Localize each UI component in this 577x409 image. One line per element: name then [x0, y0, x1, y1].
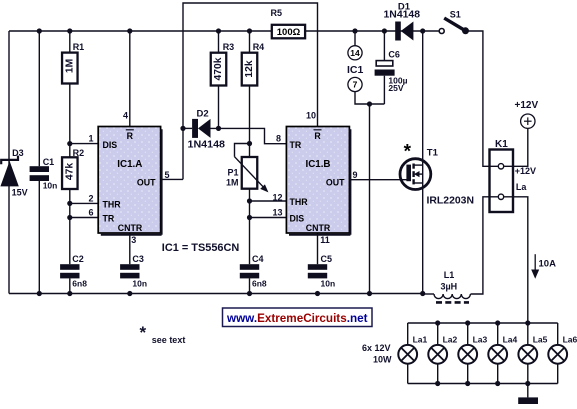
capacitor C1 10n [30, 157, 58, 190]
pin 4 [123, 111, 128, 121]
node junction D2 anode / R3 [216, 126, 221, 131]
node junction C6 top [382, 28, 387, 33]
pin 9 [353, 170, 358, 180]
wire K1 bottom to L1 [471, 197, 498, 294]
svg-text:12k: 12k [244, 60, 255, 77]
svg-text:C5: C5 [321, 254, 333, 264]
svg-text:OUT: OUT [326, 177, 345, 187]
resistor R4 12k [242, 42, 264, 86]
wire pin 5 OUT.A [161, 178, 183, 180]
node junction lamp bottom [495, 381, 500, 386]
wire bottom ground rail [9, 293, 423, 295]
op-amp U IC1.B timer half [286, 127, 350, 235]
svg-text:K1: K1 [495, 139, 508, 150]
wire lamps top bus [408, 322, 558, 324]
svg-text:*: * [140, 323, 147, 342]
diode D2 1N4148 [188, 109, 226, 151]
svg-text:IC1 = TS556CN: IC1 = TS556CN [162, 242, 240, 254]
svg-text:6n8: 6n8 [72, 279, 87, 289]
svg-text:S1: S1 [450, 10, 461, 20]
svg-text:R5: R5 [271, 8, 283, 18]
svg-text:C6: C6 [388, 49, 400, 59]
svg-text:R3: R3 [223, 42, 235, 52]
diode D3 zener 15V [0, 148, 27, 197]
svg-text:10A: 10A [539, 259, 557, 270]
wire IC1 ground drop [369, 104, 371, 294]
node junction R3 top [216, 28, 221, 33]
capacitor C5 10n [308, 254, 335, 289]
node junction pin13 [247, 215, 252, 220]
svg-text:1N4148: 1N4148 [384, 10, 421, 21]
node junction T1 source / L1 / ground rail [420, 291, 425, 296]
resistor R5 100R [271, 8, 306, 38]
label IC1 = TS556CN [162, 242, 240, 254]
svg-text:DIS: DIS [290, 213, 305, 223]
svg-text:10n: 10n [132, 279, 147, 289]
node junction lamp bottom [465, 381, 470, 386]
svg-text:+12V: +12V [515, 100, 539, 111]
svg-text:THR: THR [103, 200, 122, 210]
svg-text:C2: C2 [72, 254, 84, 264]
label +12V at K1 [515, 166, 536, 176]
switch S1 [439, 10, 469, 35]
pin 8 [276, 134, 281, 144]
wire R3 branch [218, 31, 220, 128]
lamp La4 [488, 323, 517, 384]
svg-text:CNTR: CNTR [306, 223, 331, 233]
power pin 14 [348, 46, 362, 60]
node junction lamp top [525, 320, 530, 325]
wire R1 R2 C2 column [69, 31, 71, 294]
label www.ExtremeCircuits.net [223, 308, 373, 327]
pin 11 label [320, 235, 330, 245]
pin 3 [131, 235, 136, 245]
svg-text:*: * [404, 142, 412, 163]
svg-text:R1: R1 [73, 42, 85, 52]
diode D1 1N4148 [384, 2, 421, 41]
capacitor C4 6n8 [240, 254, 267, 289]
label 6x 12V 10W [362, 343, 392, 365]
svg-text:D2: D2 [197, 109, 209, 120]
node junction gnd jog [367, 101, 372, 106]
power +12V supply [515, 100, 539, 129]
svg-text:10: 10 [306, 111, 316, 121]
svg-text:6x 12V: 6x 12V [362, 343, 391, 353]
wire left rail (D3 branch) [8, 31, 10, 294]
svg-text:La4: La4 [503, 335, 518, 345]
svg-text:La5: La5 [533, 335, 548, 345]
svg-text:IC1.A: IC1.A [117, 159, 142, 170]
wire S1 to K1 [466, 31, 498, 166]
pin 13 label [272, 208, 282, 218]
svg-text:OUT: OUT [137, 177, 156, 187]
wire pin 14 stub [354, 31, 356, 46]
svg-text:6: 6 [88, 208, 93, 218]
capacitor C6 100u 25V [375, 49, 408, 93]
wire pin 6 TR.A [70, 217, 98, 219]
node junction lamp bottom [525, 381, 530, 386]
node junction R4 top [247, 28, 252, 33]
svg-text:+12V: +12V [515, 166, 536, 176]
pin 5 [165, 170, 170, 180]
node junction lamp top [465, 320, 470, 325]
svg-text:TR: TR [103, 213, 115, 223]
svg-text:R: R [127, 131, 134, 141]
svg-text:D3: D3 [12, 148, 24, 158]
op-amp U IC1.A timer half [98, 127, 161, 235]
svg-text:R2: R2 [73, 148, 85, 158]
node junction D1 anode / T1 drain [420, 28, 425, 33]
svg-text:9: 9 [353, 170, 358, 180]
wire pin 7 to ground net [355, 92, 384, 104]
node junction pin14 top [352, 28, 357, 33]
svg-text:1M: 1M [226, 177, 239, 187]
svg-text:3: 3 [131, 235, 136, 245]
svg-text:25V: 25V [388, 83, 403, 93]
node junction C1 top [37, 28, 42, 33]
svg-text:10n: 10n [321, 279, 336, 289]
svg-text:CNTR: CNTR [118, 223, 143, 233]
svg-text:10W: 10W [373, 355, 392, 365]
node junction pin1/R1/R2 [67, 141, 72, 146]
svg-text:La: La [516, 182, 527, 192]
node junction C1 bottom [37, 291, 42, 296]
svg-text:5: 5 [165, 170, 170, 180]
wire pin 4 stub [129, 31, 131, 127]
wire K1 top to +12V [504, 128, 528, 166]
wire R4 branch [249, 31, 251, 144]
svg-text:10n: 10n [43, 180, 58, 190]
svg-text:IRL2203N: IRL2203N [427, 195, 475, 207]
resistor R1 1M [62, 42, 84, 84]
wire C6 branch [383, 31, 385, 104]
node junction OUT.A / D2 cathode [180, 126, 185, 131]
svg-text:C3: C3 [132, 254, 144, 264]
svg-text:L1: L1 [444, 270, 455, 280]
lamp La6 [548, 323, 577, 384]
wire P1 column [249, 144, 251, 294]
svg-text:6n8: 6n8 [252, 279, 267, 289]
node junction pin12 [247, 198, 252, 203]
svg-text:see text: see text [152, 335, 186, 345]
wire OUT.A to R of IC1.B (top loop) [183, 3, 318, 179]
svg-text:La3: La3 [473, 335, 488, 345]
power pin 7 [348, 77, 362, 91]
svg-text:1N4148: 1N4148 [188, 140, 226, 151]
lamp La2 [428, 323, 457, 384]
svg-text:1: 1 [88, 134, 93, 144]
svg-text:www.ExtremeCircuits.net: www.ExtremeCircuits.net [226, 312, 368, 325]
svg-text:2: 2 [88, 193, 93, 203]
node La net label [516, 182, 527, 192]
svg-text:THR: THR [290, 197, 309, 207]
capacitor C2 6n8 [60, 254, 87, 289]
svg-text:La2: La2 [443, 335, 458, 345]
wire pin 12 THR.B [250, 200, 287, 202]
svg-text:47k: 47k [64, 163, 75, 180]
svg-text:11: 11 [320, 235, 330, 245]
svg-text:470k: 470k [213, 57, 224, 80]
svg-text:7: 7 [353, 80, 358, 90]
node junction pin2 [67, 201, 72, 206]
inductor L1 3uH [423, 270, 471, 302]
wire K1 bottom to lamps [504, 197, 528, 323]
svg-text:13: 13 [272, 208, 282, 218]
svg-text:La6: La6 [563, 335, 577, 345]
wire pin 3 CNTR.A [129, 233, 131, 264]
wire pin 2 THR.A [70, 202, 98, 204]
svg-text:1M: 1M [64, 59, 75, 73]
label IC1 power [347, 64, 364, 76]
wire ground stub [527, 384, 529, 398]
wire pin 13 DIS.B [250, 217, 287, 219]
node junction pin6 [67, 215, 72, 220]
node junction IC1 gnd bottom [367, 291, 372, 296]
connector K1 [490, 139, 514, 212]
wire pin 11 CNTR.B [317, 233, 319, 264]
node junction lamp top [435, 320, 440, 325]
node junction pin4 top [127, 28, 132, 33]
node junction lamp top [495, 320, 500, 325]
svg-text:IC1: IC1 [347, 64, 364, 76]
svg-text:15V: 15V [12, 188, 28, 198]
wire D2 anode to pin 8 TR.B [211, 128, 287, 143]
wire D2 cathode stub [183, 127, 192, 129]
node junction P1 top [247, 141, 252, 146]
wire T1 drain-source line [422, 31, 424, 294]
svg-text:14: 14 [350, 48, 360, 58]
node junction lamp bottom [435, 381, 440, 386]
transistor T1 IRL2203N [400, 142, 474, 207]
svg-text:3µH: 3µH [440, 281, 457, 291]
svg-text:C1: C1 [43, 157, 55, 167]
svg-text:C4: C4 [252, 254, 264, 264]
node junction R1 top [67, 28, 72, 33]
svg-text:12: 12 [272, 192, 282, 202]
lamp La3 [458, 323, 487, 384]
potentiometer P1 1M [226, 144, 268, 193]
svg-text:R: R [314, 131, 321, 141]
resistor R3 470k [211, 42, 234, 86]
pin 2 [88, 193, 93, 203]
pin 6 [88, 208, 93, 218]
label see text [140, 323, 186, 345]
svg-text:TR: TR [290, 140, 302, 150]
current arrow 10A [531, 254, 556, 279]
pin 1 [88, 134, 93, 144]
lamp La5 [518, 323, 547, 384]
svg-text:DIS: DIS [103, 140, 118, 150]
wire +12V top rail [9, 30, 439, 32]
ground [518, 397, 538, 404]
node junction C2 bottom [67, 291, 72, 296]
svg-text:La1: La1 [413, 335, 428, 345]
wire gate from pin 9 [349, 179, 406, 181]
resistor R2 47k [62, 148, 84, 189]
svg-text:T1: T1 [427, 147, 439, 158]
lamp La1 [398, 323, 427, 384]
svg-text:4: 4 [123, 111, 128, 121]
pin 10 [306, 111, 316, 121]
svg-text:8: 8 [276, 134, 281, 144]
node junction C5 bottom [315, 291, 320, 296]
svg-text:R4: R4 [253, 42, 265, 52]
svg-text:IC1.B: IC1.B [305, 159, 330, 170]
node junction C3 bottom [127, 291, 132, 296]
wire C1 branch [38, 31, 40, 294]
node junction C4 bottom [247, 291, 252, 296]
svg-text:P1: P1 [227, 168, 238, 178]
pin 12 label [272, 192, 282, 202]
wire pin 1 DIS.A [70, 143, 98, 145]
wire lamps bottom bus [408, 383, 558, 385]
capacitor C3 10n [120, 254, 147, 289]
svg-text:100Ω: 100Ω [277, 27, 301, 38]
